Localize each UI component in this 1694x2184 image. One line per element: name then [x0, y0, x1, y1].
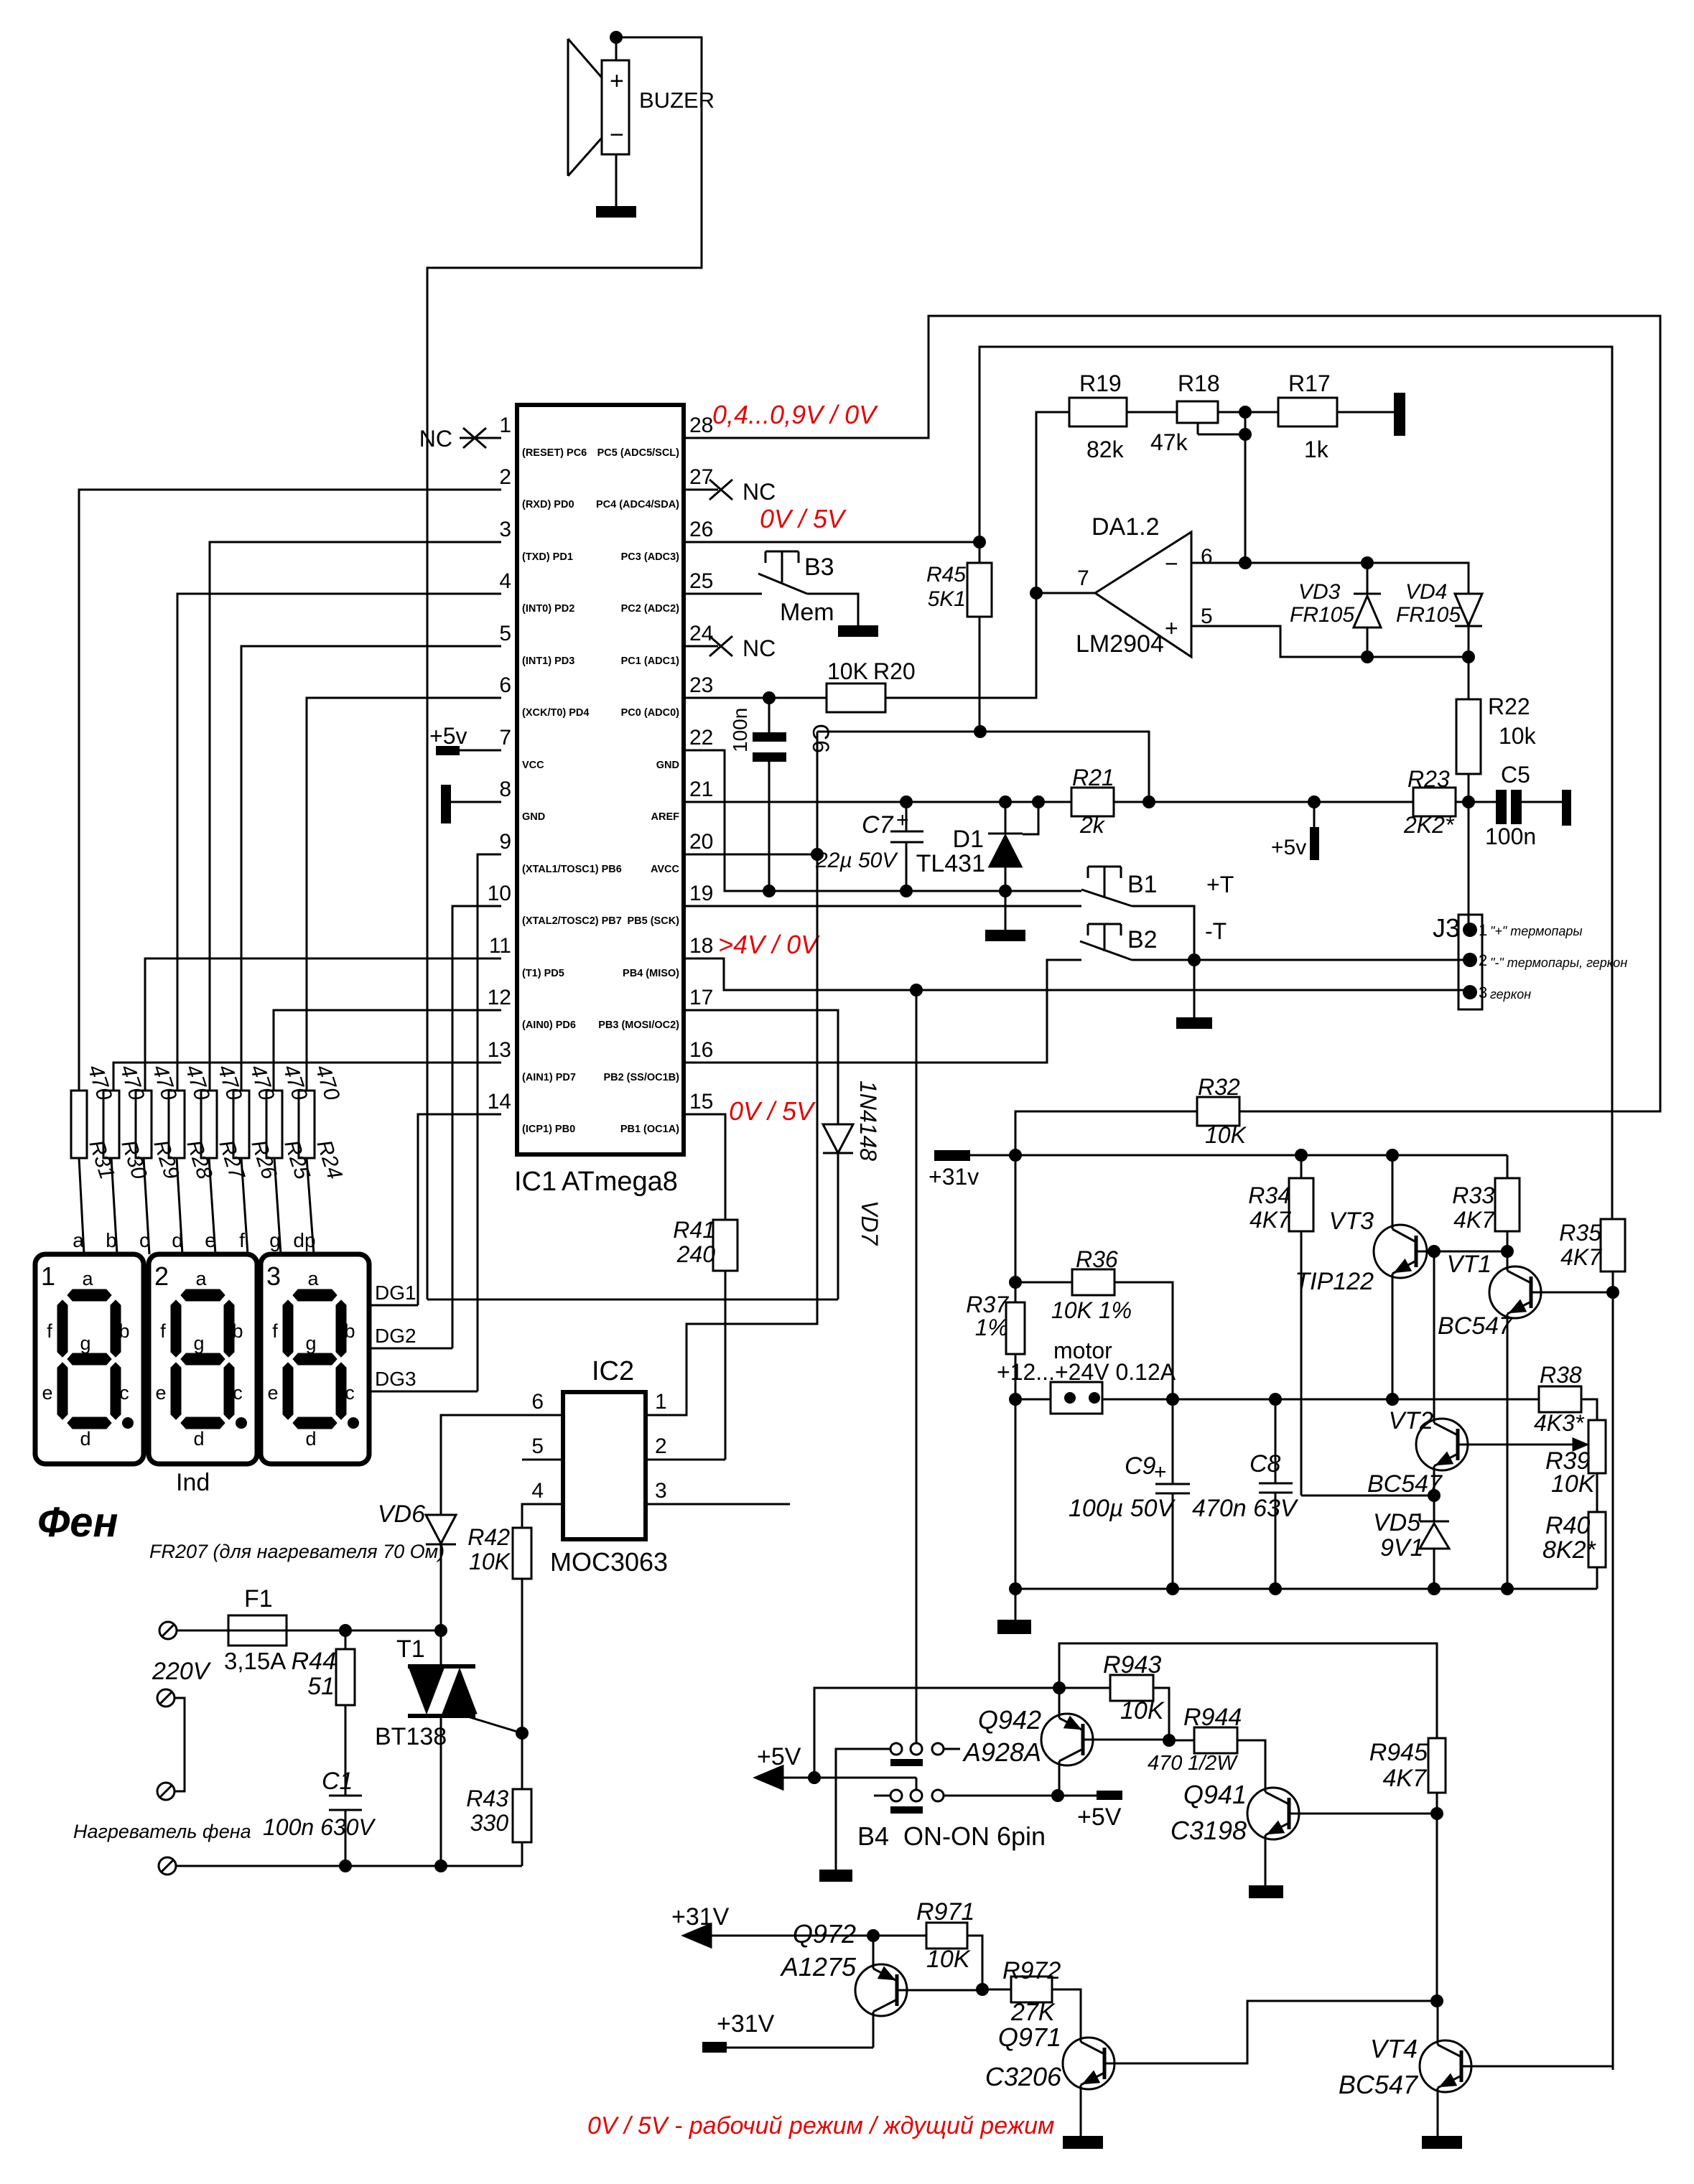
svg-text:15: 15	[689, 1090, 713, 1114]
wire pin17 PB3 to VD7	[684, 1010, 838, 1093]
wire +31v rail	[1009, 1149, 1507, 1162]
svg-text:c: c	[119, 1382, 129, 1404]
svg-text:C3206: C3206	[985, 2062, 1062, 2091]
resistor R44 51	[292, 1630, 355, 1705]
svg-text:19: 19	[689, 882, 713, 905]
node segment d label	[172, 1229, 183, 1251]
node C6 top	[763, 691, 776, 704]
svg-text:9V1: 9V1	[1380, 1534, 1424, 1562]
wire DG3	[368, 1368, 478, 1391]
svg-text:R23: R23	[1407, 766, 1450, 792]
svg-text:240: 240	[676, 1241, 716, 1267]
svg-text:ATmega8: ATmega8	[562, 1167, 678, 1197]
svg-text:c: c	[139, 1229, 149, 1251]
svg-text:23: 23	[689, 673, 713, 697]
svg-text:4K7: 4K7	[1383, 1765, 1428, 1792]
capacitor C1 100n 630V	[263, 1705, 376, 1866]
power +5v tap	[1271, 802, 1319, 860]
power +31V arrow	[671, 1903, 926, 1947]
wire R20 to R19 column	[885, 412, 1069, 698]
svg-text:7: 7	[1077, 566, 1089, 590]
svg-text:27: 27	[689, 465, 713, 489]
wire pin14 to DG1	[418, 1114, 501, 1305]
pin 7 VCC	[499, 726, 544, 771]
resistor R36 10K 1%	[1009, 1246, 1173, 1399]
wire node line y1019	[817, 725, 1155, 808]
svg-text:Фен: Фен	[37, 1499, 118, 1546]
svg-text:VD3: VD3	[1298, 580, 1341, 604]
node VT3 base	[1428, 1245, 1441, 1258]
resistor R21 2k	[1071, 765, 1114, 838]
resistor R18 47k trimmer	[1150, 370, 1252, 455]
svg-text:R27: R27	[214, 1137, 249, 1183]
svg-text:(AIN0) PD6: (AIN0) PD6	[522, 1019, 576, 1031]
svg-text:g: g	[305, 1333, 316, 1354]
wire pin21 AREF line	[684, 801, 1071, 803]
svg-text:MOC3063: MOC3063	[550, 1547, 668, 1577]
svg-text:C7: C7	[862, 811, 894, 839]
svg-text:LM2904: LM2904	[1076, 630, 1164, 658]
node buzzer top	[610, 31, 623, 44]
svg-text:R44: R44	[292, 1648, 336, 1675]
svg-text:VCC: VCC	[522, 760, 544, 771]
svg-text:1%: 1%	[975, 1315, 1008, 1340]
svg-text:13: 13	[488, 1038, 511, 1062]
svg-text:R35: R35	[1559, 1220, 1601, 1246]
svg-text:BC547: BC547	[1438, 1312, 1513, 1340]
svg-text:b: b	[106, 1229, 117, 1251]
node geercon branch	[910, 984, 923, 997]
power bar after R17	[1337, 393, 1405, 436]
pin 18 PB4 (MISO)	[623, 934, 713, 979]
power +31V bar Q972	[702, 2010, 873, 2053]
svg-text:d: d	[305, 1428, 316, 1450]
svg-text:DA1.2: DA1.2	[1092, 513, 1160, 541]
label Ind	[176, 1469, 210, 1496]
svg-text:e: e	[267, 1382, 278, 1404]
ground B1 B2	[1176, 1017, 1212, 1029]
wire buzzer line to VD7	[427, 1299, 838, 1301]
svg-text:f: f	[239, 1229, 245, 1251]
svg-text:−: −	[610, 121, 624, 149]
svg-text:Нагреватель фена: Нагреватель фена	[73, 1821, 251, 1842]
svg-text:5: 5	[499, 622, 511, 645]
pin 6 (XCK/T0) PD4	[499, 673, 589, 719]
svg-text:22µ 50V: 22µ 50V	[815, 849, 898, 872]
capacitor C6 100n	[729, 698, 834, 891]
svg-text:10k: 10k	[1499, 723, 1537, 749]
wire R18 to R17 junction	[1218, 406, 1278, 563]
svg-text:g: g	[269, 1229, 281, 1251]
svg-text:10K: 10K	[926, 1946, 971, 1973]
pin 19 PB5 (SCK)	[627, 882, 713, 927]
svg-text:NC: NC	[743, 635, 776, 661]
label 220V	[152, 1658, 212, 1685]
resistor R19 82k	[1069, 370, 1127, 462]
resistor R26 470	[233, 1062, 281, 1182]
wire lead R25 to display	[274, 1158, 281, 1254]
svg-text:100n: 100n	[729, 708, 751, 752]
switch B4 ON-ON 6pin	[836, 1743, 1046, 1870]
resistor R943 10K	[1059, 1651, 1176, 1747]
pin 6 IC2	[441, 1390, 563, 1515]
svg-text:FR105: FR105	[1290, 603, 1354, 627]
wire lead R24 to display	[307, 1158, 314, 1254]
capacitor C7 22u 50V	[815, 795, 923, 897]
terminal heater	[159, 1857, 176, 1875]
svg-text:R24: R24	[312, 1137, 346, 1182]
svg-text:+31V: +31V	[717, 2010, 775, 2038]
svg-text:9: 9	[499, 830, 511, 854]
pin 28 PC5 (ADC5/SCL)	[597, 414, 714, 459]
svg-text:(RESET) PC6: (RESET) PC6	[522, 447, 587, 459]
wire pin18 PB4 to J3 line	[684, 958, 1465, 990]
svg-text:(ICP1) PB0: (ICP1) PB0	[522, 1124, 575, 1135]
svg-text:10K: 10K	[1205, 1122, 1247, 1148]
svg-text:B4: B4	[857, 1821, 889, 1851]
svg-text:+31v: +31v	[929, 1164, 979, 1190]
capacitor C8 470n 63V	[1192, 1399, 1299, 1589]
svg-text:R944: R944	[1183, 1704, 1242, 1731]
svg-text:7: 7	[499, 726, 511, 750]
wire pin1 NC	[460, 437, 501, 439]
svg-text:3: 3	[655, 1479, 667, 1503]
label heater	[73, 1821, 251, 1842]
wire R19-R18	[1127, 411, 1177, 414]
pin 22 GND	[656, 726, 714, 771]
ground Q971	[1063, 2136, 1103, 2149]
resistor R971 10K	[916, 1898, 989, 1996]
svg-text:R17: R17	[1288, 370, 1331, 396]
svg-text:25: 25	[689, 569, 713, 593]
resistor R24 470	[299, 1062, 347, 1182]
resistor R33 4K7	[1452, 1155, 1520, 1251]
resistor R28 470	[169, 1062, 217, 1182]
svg-text:R41: R41	[673, 1217, 715, 1243]
power +5v at pin7	[429, 723, 501, 755]
wire pin23 PC0	[684, 697, 827, 699]
resistor R32 10K	[1197, 1074, 1247, 1148]
svg-text:47k: 47k	[1150, 429, 1188, 455]
svg-text:1: 1	[41, 1261, 55, 1291]
svg-text:(AIN1) PD7: (AIN1) PD7	[522, 1072, 576, 1083]
pin 4 (INT0) PD2	[499, 569, 574, 615]
pin 1 (RESET) PC6	[499, 414, 587, 459]
svg-text:ON-ON 6pin: ON-ON 6pin	[903, 1821, 1046, 1851]
capacitor C5 100n	[1485, 762, 1571, 849]
svg-text:d: d	[193, 1428, 204, 1450]
terminal 220V a	[157, 1689, 185, 1791]
wire F1 to triac column	[287, 1624, 447, 1637]
svg-text:(RXD) PD0: (RXD) PD0	[522, 499, 574, 510]
svg-text:BUZER: BUZER	[639, 88, 715, 113]
svg-text:J3: J3	[1433, 913, 1460, 943]
svg-text:C8: C8	[1249, 1450, 1281, 1478]
svg-text:NC: NC	[419, 426, 452, 452]
svg-text:IC2: IC2	[592, 1356, 634, 1386]
wire pin10 to DG2	[452, 906, 501, 1348]
resistor R944 470 1/2W	[1148, 1704, 1265, 1783]
svg-text:PC5 (ADC5/SCL): PC5 (ADC5/SCL)	[597, 447, 680, 459]
svg-text:470: 470	[1148, 1752, 1182, 1775]
pin 16 PB2 (SS/OC1B)	[603, 1038, 713, 1083]
display indicator digit 2	[149, 1254, 257, 1464]
pin 3 IC2	[646, 1479, 790, 1504]
svg-text:5: 5	[531, 1434, 544, 1458]
wire R21 to R23	[1114, 795, 1413, 808]
pin 12 (AIN0) PD6	[488, 986, 576, 1031]
svg-text:VD5: VD5	[1373, 1509, 1420, 1536]
pin 24 PC1 (ADC1)	[621, 622, 714, 667]
svg-text:+5v: +5v	[429, 723, 467, 749]
svg-text:F1: F1	[244, 1585, 273, 1613]
wire pin16 PB2 to B2	[684, 960, 1081, 1063]
switch B3 Mem	[758, 551, 878, 637]
node triac gate junction	[516, 1727, 529, 1740]
svg-text:VT2: VT2	[1389, 1407, 1433, 1434]
wire pin11 to R column x=202	[145, 958, 501, 1091]
wire op-amp output	[1030, 587, 1095, 599]
svg-text:VT1: VT1	[1447, 1251, 1491, 1278]
svg-text:PB5 (SCK): PB5 (SCK)	[627, 915, 679, 927]
label 0V / 5V pin15	[729, 1096, 816, 1126]
node segment e label	[205, 1229, 216, 1251]
svg-text:R22: R22	[1488, 694, 1530, 719]
wire +5V line B4	[771, 1771, 916, 1790]
svg-text:R36: R36	[1076, 1246, 1118, 1272]
svg-text:22: 22	[689, 726, 713, 750]
label >4V / 0V	[718, 930, 820, 959]
svg-text:20: 20	[689, 830, 713, 854]
ground Q941	[1249, 1885, 1283, 1898]
svg-text:-T: -T	[1205, 918, 1227, 944]
svg-text:+31V: +31V	[671, 1903, 730, 1931]
svg-text:3: 3	[499, 518, 511, 541]
svg-text:C5: C5	[1501, 762, 1530, 788]
IC IC2 MOC3063 body	[550, 1356, 668, 1577]
svg-text:6: 6	[531, 1390, 544, 1414]
wire lead R26 to display	[241, 1158, 248, 1254]
svg-text:c: c	[345, 1382, 355, 1404]
svg-text:5K1: 5K1	[928, 587, 966, 611]
node segment dp label	[293, 1229, 315, 1251]
label Фен	[37, 1499, 118, 1546]
svg-text:PB1 (OC1A): PB1 (OC1A)	[620, 1124, 679, 1135]
svg-text:2K2*: 2K2*	[1403, 812, 1455, 838]
svg-text:(XCK/T0) PD4: (XCK/T0) PD4	[522, 707, 589, 719]
svg-text:+: +	[1165, 615, 1178, 641]
buzzer BUZER	[568, 39, 715, 176]
svg-text:R971: R971	[916, 1898, 974, 1926]
svg-text:51: 51	[307, 1673, 335, 1700]
diode VD7 1N4148	[823, 1081, 883, 1299]
transistor VT3 TIP122	[1295, 1155, 1434, 1399]
svg-text:R40: R40	[1545, 1512, 1590, 1539]
svg-text:геркон: геркон	[1490, 987, 1531, 1002]
wire pin20 AVCC	[684, 848, 824, 861]
node VT2 emitter	[1428, 1489, 1441, 1502]
svg-text:d: d	[80, 1428, 90, 1450]
wire AVCC column to IC2 pin1 feed	[646, 732, 817, 1415]
power +5V arrow	[755, 1743, 801, 1789]
svg-text:VD4: VD4	[1405, 580, 1447, 604]
pin 27 PC4 (ADC4/SDA)	[596, 465, 713, 510]
resistor R25 470	[266, 1062, 315, 1182]
terminal 220V b	[157, 1783, 174, 1800]
svg-text:a: a	[307, 1268, 319, 1289]
wire R945 top branch	[1059, 1643, 1437, 1738]
transistor VT2 BC547	[1367, 1251, 1588, 1498]
svg-text:8: 8	[499, 778, 511, 801]
svg-text:R42: R42	[467, 1524, 510, 1550]
wire bottom mains	[176, 1859, 522, 1872]
wire pin4 to R column x=247	[177, 594, 501, 1091]
svg-text:10: 10	[488, 882, 511, 905]
fuse F1 3,15A	[224, 1585, 287, 1674]
svg-text:GND: GND	[656, 760, 679, 771]
svg-text:10K 1%: 10K 1%	[1051, 1297, 1132, 1323]
svg-text:e: e	[42, 1382, 52, 1404]
svg-text:16: 16	[689, 1038, 713, 1062]
svg-text:3: 3	[1479, 984, 1487, 1002]
svg-text:Q971: Q971	[998, 2022, 1061, 2052]
svg-text:+: +	[1154, 1460, 1167, 1484]
pin 3 (TXD) PD1	[499, 518, 573, 563]
svg-text:e: e	[155, 1382, 166, 1404]
svg-text:g: g	[193, 1333, 204, 1354]
svg-text:C6: C6	[808, 724, 834, 753]
svg-text:VT4: VT4	[1370, 2034, 1418, 2063]
svg-text:f: f	[272, 1320, 278, 1342]
svg-text:2k: 2k	[1079, 812, 1106, 838]
wire lead R29 to display	[144, 1158, 149, 1254]
wire pin28 PC5 loop to R32	[684, 316, 1660, 1111]
svg-text:Q941: Q941	[1183, 1780, 1247, 1809]
svg-text:C1: C1	[322, 1768, 353, 1795]
resistor R35 4K7	[1559, 1219, 1625, 2070]
diode D1 TL431	[916, 795, 1045, 941]
svg-text:18: 18	[689, 934, 713, 958]
svg-text:R31: R31	[84, 1137, 118, 1182]
ground buzzer	[596, 154, 636, 218]
wire lead R31 to display	[79, 1158, 84, 1254]
resistor R45 5K1	[926, 542, 992, 732]
svg-text:f: f	[47, 1320, 52, 1342]
svg-text:4K7: 4K7	[1453, 1207, 1495, 1233]
wire pin27 NC	[684, 479, 776, 505]
transistor VT4 BC547	[1339, 2001, 1613, 2136]
svg-text:R21: R21	[1072, 765, 1114, 790]
pin 5 IC2	[522, 1434, 563, 1460]
svg-text:+T: +T	[1206, 872, 1234, 897]
transistor Q942 A928A	[962, 1688, 1169, 1796]
terminal mains top	[159, 1622, 228, 1639]
svg-text:R43: R43	[466, 1786, 508, 1811]
wire pin5 to R column x=336	[241, 646, 501, 1091]
svg-text:10K: 10K	[469, 1549, 511, 1574]
svg-text:(XTAL1/TOSC1) PB6: (XTAL1/TOSC1) PB6	[522, 864, 622, 875]
svg-text:14: 14	[488, 1090, 511, 1114]
label 0,4...0,9V / 0V	[712, 400, 878, 429]
pin 8 GND	[499, 778, 545, 823]
node segment a label	[73, 1229, 84, 1251]
svg-text:Ind: Ind	[176, 1469, 210, 1496]
svg-text:"-" термопары, геркон: "-" термопары, геркон	[1490, 956, 1627, 970]
svg-text:R19: R19	[1079, 370, 1122, 396]
svg-text:R943: R943	[1103, 1651, 1161, 1679]
svg-text:100µ 50V: 100µ 50V	[1069, 1495, 1176, 1522]
transistor Q971 C3206	[985, 2001, 1437, 2136]
svg-text:5: 5	[1201, 605, 1213, 628]
resistor R37 340 1%	[966, 1155, 1025, 1589]
wire geercon to B4	[916, 990, 918, 1743]
svg-text:R945: R945	[1369, 1739, 1428, 1766]
svg-text:24: 24	[689, 622, 713, 645]
svg-text:AREF: AREF	[651, 811, 680, 823]
op-amp DA1.2 LM2904	[1076, 513, 1213, 658]
svg-text:R18: R18	[1178, 370, 1220, 396]
wire pin6 to R column x=427	[307, 698, 501, 1091]
svg-text:b: b	[232, 1320, 243, 1342]
resistor R40 8K2*	[1542, 1512, 1606, 1589]
diode VD6 FR207	[149, 1501, 456, 1630]
svg-text:TIP122: TIP122	[1295, 1268, 1374, 1295]
wire lead R28 to display	[177, 1158, 182, 1254]
svg-text:6: 6	[499, 673, 511, 697]
svg-text:BC547: BC547	[1339, 2070, 1419, 2099]
pin 20 AVCC	[651, 830, 713, 875]
svg-text:Q972: Q972	[793, 1919, 856, 1949]
node segment g label	[269, 1229, 281, 1251]
switch B1 +T	[1081, 867, 1234, 1017]
svg-text:3,15A: 3,15A	[224, 1648, 286, 1674]
display indicator digit 1	[35, 1254, 144, 1464]
svg-text:D1: D1	[953, 826, 984, 853]
svg-text:DG3: DG3	[375, 1368, 416, 1390]
svg-text:100n: 100n	[1485, 823, 1536, 849]
svg-text:FR105: FR105	[1396, 603, 1461, 627]
svg-text:+5v: +5v	[1271, 836, 1306, 859]
pin 9 (XTAL1/TOSC1) PB6	[499, 830, 622, 875]
wire bottom rail	[1009, 1582, 1597, 1595]
resistor R30 470	[103, 1062, 152, 1182]
display indicator digit 3	[261, 1254, 369, 1464]
wire pin12 to R column x=381	[274, 1010, 501, 1091]
svg-text:b: b	[118, 1320, 129, 1342]
svg-text:A1275: A1275	[780, 1952, 857, 1982]
svg-text:A928A: A928A	[962, 1737, 1041, 1767]
svg-text:B3: B3	[804, 554, 834, 581]
svg-text:0V / 5V: 0V / 5V	[760, 504, 847, 533]
ground at pin8	[441, 785, 501, 823]
svg-text:PC3 (ADC3): PC3 (ADC3)	[621, 551, 680, 563]
pin 2 IC2	[655, 1434, 667, 1458]
pin 26 PC3 (ADC3)	[621, 518, 714, 563]
svg-text:PC2 (ADC2): PC2 (ADC2)	[621, 603, 680, 615]
label 0V / 5V pin26	[760, 504, 847, 533]
node segment b label	[106, 1229, 117, 1251]
svg-text:4: 4	[499, 569, 511, 593]
resistor R17 1k	[1278, 370, 1337, 462]
wire DG1	[368, 1282, 418, 1305]
svg-text:a: a	[82, 1268, 93, 1289]
svg-text:VT3: VT3	[1329, 1208, 1374, 1235]
pin 11 (T1) PD5	[489, 934, 564, 979]
pin 21 AREF	[651, 778, 714, 823]
svg-text:1k: 1k	[1304, 437, 1329, 462]
svg-text:C9: C9	[1125, 1452, 1156, 1480]
resistor R41 240	[646, 1217, 737, 1460]
